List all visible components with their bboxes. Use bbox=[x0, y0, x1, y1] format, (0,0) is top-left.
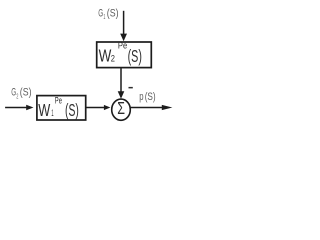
svg-text:W: W bbox=[38, 100, 50, 120]
block W2 box bbox=[97, 42, 152, 68]
block W2 label W2^Pe(S) bbox=[99, 41, 142, 66]
svg-text:Pe: Pe bbox=[118, 41, 127, 52]
svg-text:2: 2 bbox=[111, 54, 115, 64]
wire: summer output arrow bbox=[130, 105, 172, 110]
block W1 label W1^Pe(S) bbox=[38, 96, 79, 121]
block W1 box bbox=[37, 96, 86, 120]
svg-text:(S): (S) bbox=[128, 46, 142, 66]
svg-text:(S): (S) bbox=[145, 91, 156, 103]
wire: W2 output arrow into summer bbox=[118, 68, 125, 98]
svg-text:G: G bbox=[98, 8, 103, 20]
wire: G1 input arrow into W2 bbox=[120, 11, 127, 41]
svg-text:1: 1 bbox=[51, 108, 53, 118]
wire: W1 output arrow into summer bbox=[86, 105, 111, 110]
node G1(S) input label bbox=[98, 8, 118, 21]
svg-text:(S): (S) bbox=[107, 8, 119, 20]
node p(S) output label bbox=[139, 91, 156, 103]
svg-text:Σ: Σ bbox=[117, 98, 125, 118]
svg-text:(S): (S) bbox=[20, 86, 32, 98]
svg-text:Pe: Pe bbox=[55, 96, 62, 107]
svg-text:(S): (S) bbox=[65, 100, 79, 120]
svg-text:p: p bbox=[139, 91, 143, 103]
svg-text:2: 2 bbox=[16, 94, 18, 101]
node G2(S) input label bbox=[11, 86, 31, 100]
svg-text:G: G bbox=[11, 86, 16, 98]
summer circle bbox=[112, 99, 131, 120]
svg-text:1: 1 bbox=[103, 14, 105, 21]
minus sign at summer bbox=[129, 87, 133, 89]
wire: G2 input arrow into W1 bbox=[5, 105, 33, 110]
